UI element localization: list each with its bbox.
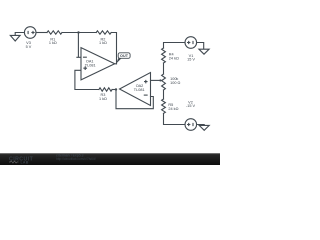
svg-text:TL081: TL081 (85, 63, 96, 67)
svg-text:100 Ω: 100 Ω (170, 81, 180, 85)
svg-text:TL081: TL081 (134, 88, 145, 92)
svg-text:24 kΩ: 24 kΩ (168, 107, 178, 111)
svg-text:1 kΩ: 1 kΩ (99, 97, 107, 101)
svg-text:24 kΩ: 24 kΩ (169, 56, 179, 60)
svg-text:1 kΩ: 1 kΩ (99, 41, 107, 45)
svg-text:OUT: OUT (120, 54, 129, 58)
svg-text:1 kΩ: 1 kΩ (49, 41, 57, 45)
svg-text:-15 V: -15 V (186, 104, 196, 108)
svg-text:15 V: 15 V (187, 58, 195, 62)
svg-text:5 V: 5 V (26, 45, 32, 49)
svg-text:http://circuitlab.com/c/7fs64f: http://circuitlab.com/c/7fs64f (56, 157, 96, 161)
svg-text:LAB: LAB (21, 161, 29, 165)
